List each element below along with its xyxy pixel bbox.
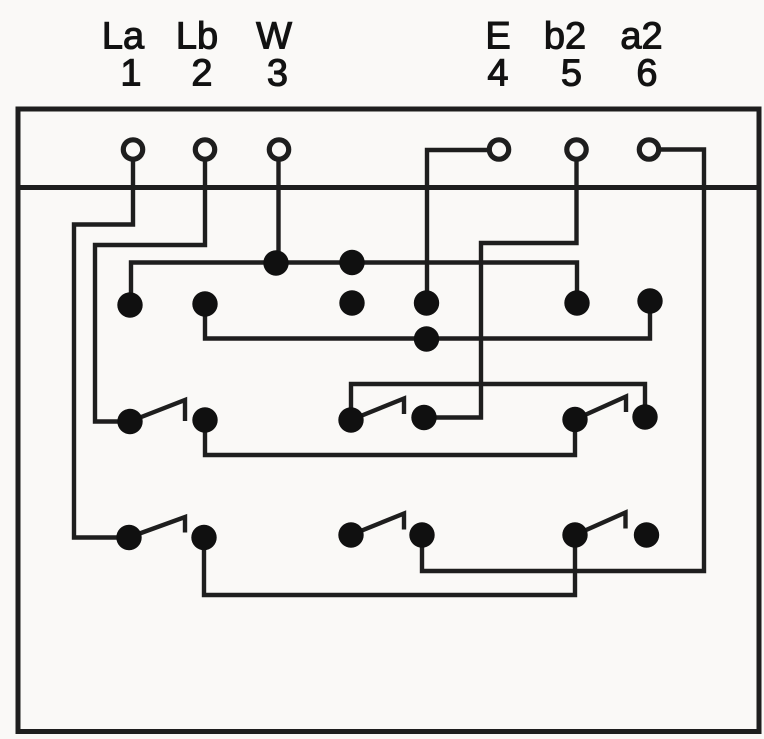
switch arm S3 (middle-right) (576, 397, 626, 420)
contact dot S5 left (338, 522, 363, 547)
switch arm S4 (bottom-left) (130, 517, 185, 537)
wire bottom row cross link (204, 535, 575, 595)
wire terminal2 to middle-left switch contact (95, 162, 205, 422)
junction dot row B 4 (E) (414, 290, 439, 315)
terminal circle 1 (La) (123, 140, 142, 159)
switch arm S1 (middle-left) (131, 400, 185, 421)
contact dot S1 left (117, 409, 142, 434)
contact dot S2 left (338, 407, 363, 432)
wire terminal4 (E) to junction dot (427, 150, 488, 303)
wire upper middle link to middle-right switch (351, 384, 645, 420)
terminal circle 6 (a2) (639, 140, 658, 159)
switch arm S2 (middle-centre) (352, 399, 404, 420)
junction dot row B 1 (117, 292, 142, 317)
wire bus row A with end drops (131, 263, 577, 306)
contact dot S3 right (632, 404, 657, 429)
wire terminal1 to bottom-left switch contact (74, 162, 133, 538)
svg-text:2: 2 (191, 53, 212, 95)
junction dot row B 6 (a2) (637, 288, 662, 313)
wire terminal6 (a2) to bottom-centre switch contact (422, 150, 704, 572)
wire middle row cross link (205, 420, 575, 456)
junction dot row B 2 (192, 291, 217, 316)
contact dot S4 right (191, 525, 216, 550)
contact dot S4 left (116, 525, 141, 550)
contact dot S6 right (634, 522, 659, 547)
junction dot row B 3 (339, 290, 364, 315)
switch arm S6 (bottom-right) (576, 513, 626, 535)
switch arm S5 (bottom-centre) (352, 514, 404, 535)
junction dot row A second (339, 250, 364, 275)
svg-text:1: 1 (120, 53, 141, 95)
svg-text:a2: a2 (620, 16, 662, 58)
svg-text:E: E (485, 16, 510, 58)
terminal circle 2 (Lb) (195, 140, 214, 159)
contact dot S2 right (411, 405, 436, 430)
contact dot S1 right (192, 407, 217, 432)
svg-text:Lb: Lb (176, 16, 218, 58)
contact dot S6 left (562, 522, 587, 547)
terminal circle 4 (E) (489, 140, 508, 159)
svg-text:b2: b2 (544, 16, 586, 58)
wire terminal5 (b2) to middle-centre switch contact (424, 162, 577, 418)
terminal circle 5 (b2) (567, 140, 586, 159)
junction dot row A under W (263, 250, 288, 275)
contact dot S3 left (562, 407, 587, 432)
svg-text:W: W (256, 16, 292, 58)
svg-text:La: La (102, 16, 145, 58)
junction dot on lower link bus (414, 326, 439, 351)
svg-text:3: 3 (267, 53, 288, 95)
contact dot S5 right (409, 522, 434, 547)
svg-text:5: 5 (561, 53, 582, 95)
svg-text:4: 4 (487, 53, 508, 95)
svg-text:6: 6 (636, 53, 657, 95)
terminal circle 3 (W) (269, 140, 288, 159)
wire terminal3 stem to junction row A (276, 162, 280, 264)
wire bus row B lower link (205, 301, 650, 339)
junction dot row B 5 (b2) (564, 290, 589, 315)
enclosure terminal-strip divider line (16, 185, 761, 190)
